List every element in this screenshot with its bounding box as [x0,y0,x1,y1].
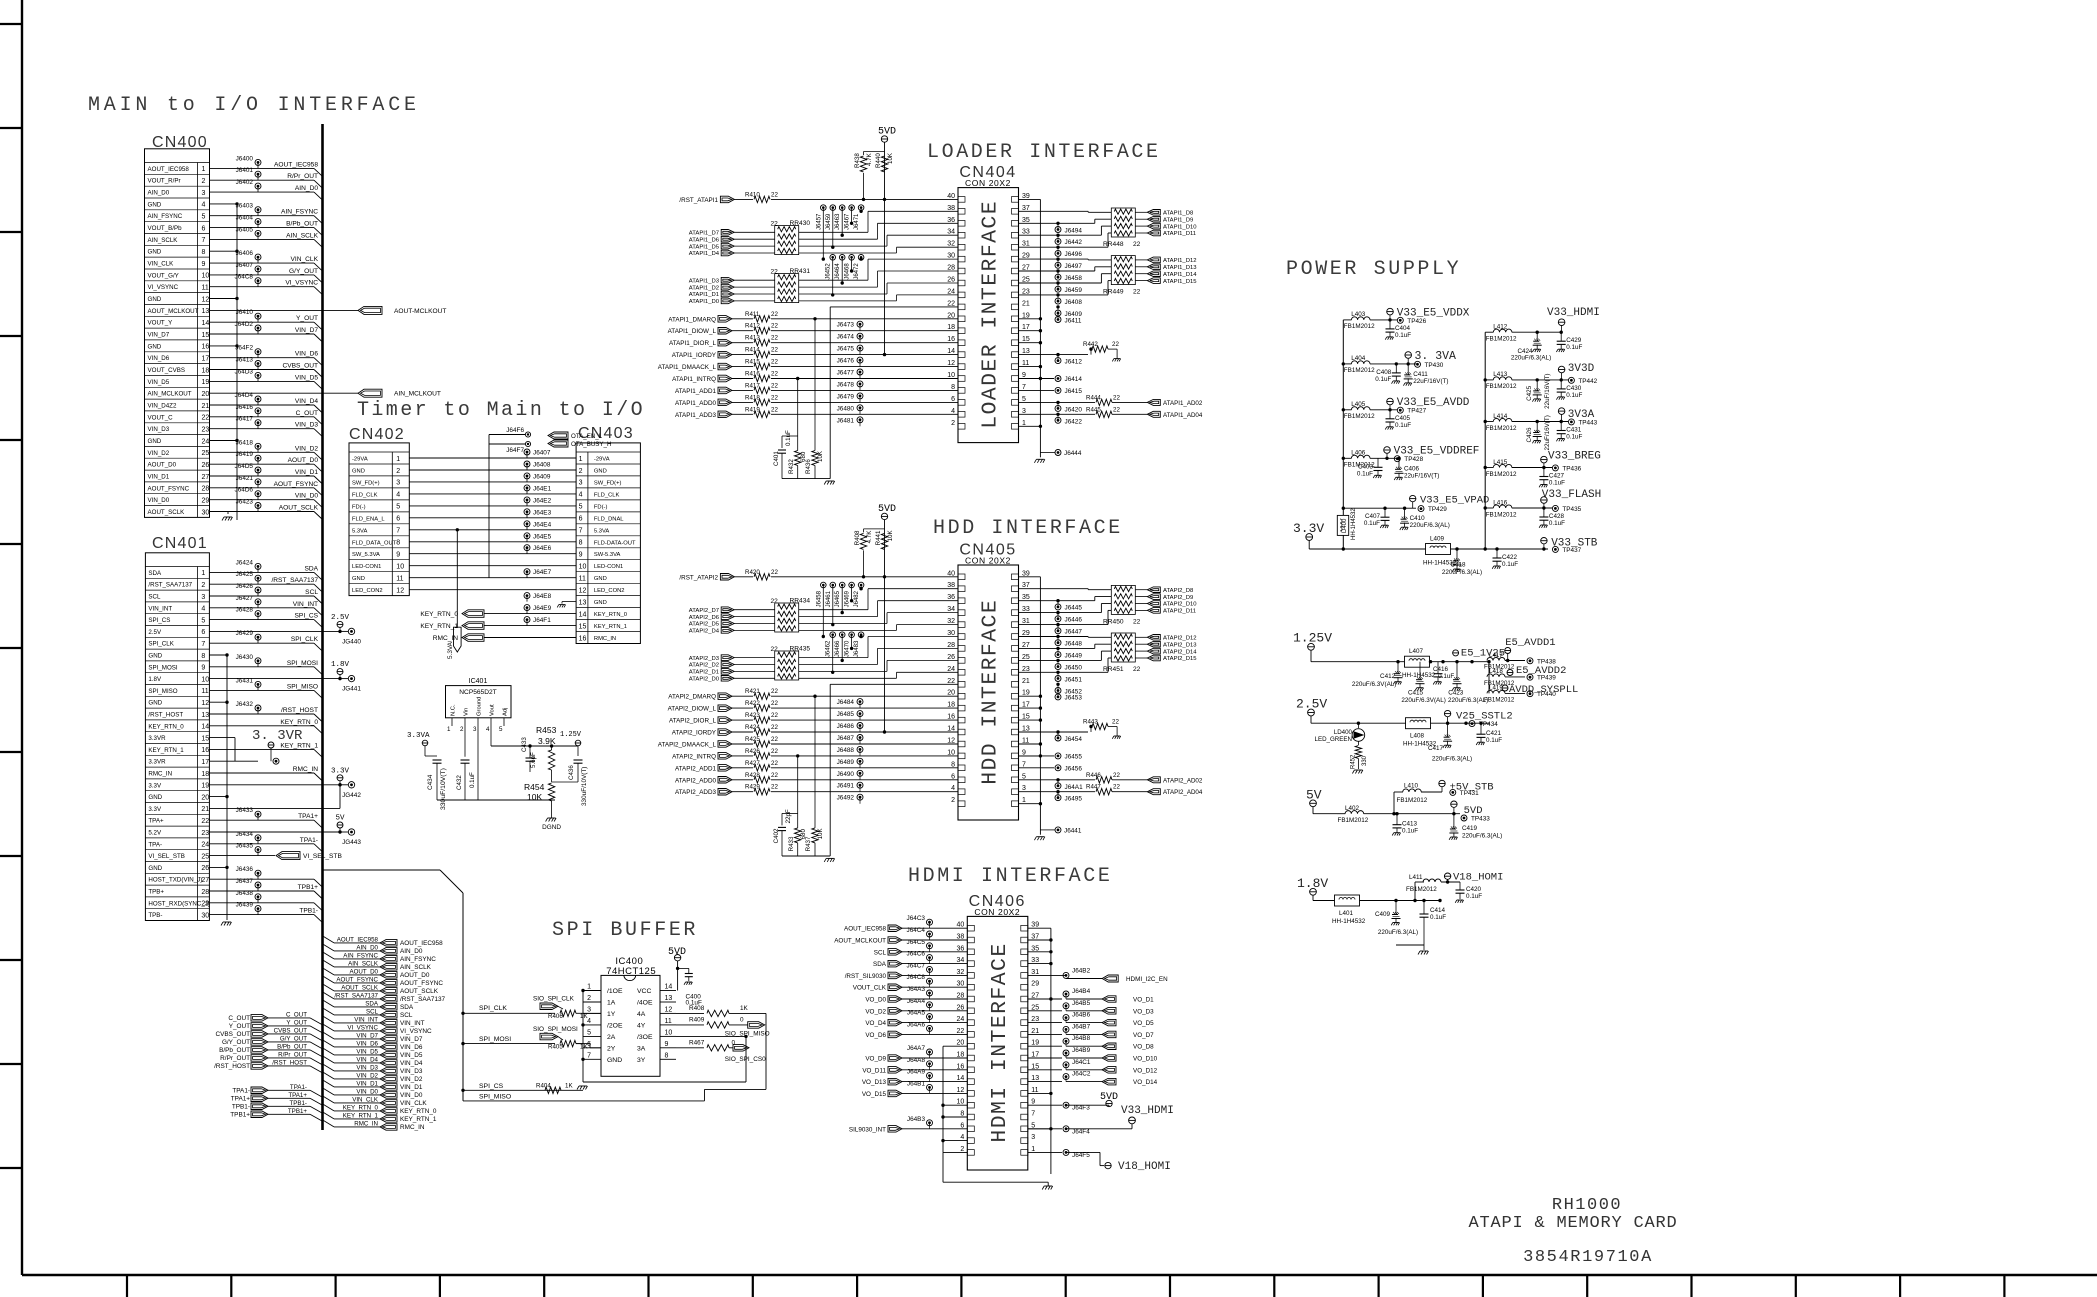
svg-text:GND: GND [352,576,365,582]
svg-text:22: 22 [771,736,778,743]
svg-text:14: 14 [201,724,209,731]
power V18_HOMI [1105,1162,1111,1168]
svg-text:VO_D7: VO_D7 [1133,1032,1154,1039]
svg-text:ATAPI2_D8: ATAPI2_D8 [1163,588,1194,594]
svg-text:HH-1H4532: HH-1H4532 [1332,918,1366,925]
svg-text:GND: GND [148,794,162,801]
wire VOUT_CLK to CN406 pin 30 [902,986,967,988]
svg-text:22: 22 [1133,618,1141,625]
svg-text:SPI BUFFER: SPI BUFFER [552,919,698,942]
ground [1114,735,1120,737]
inductor L404 FB1M2012 [1343,363,1351,365]
svg-text:C428: C428 [1549,513,1565,520]
svg-text:J64C7: J64C7 [907,962,926,969]
svg-text:22: 22 [771,772,778,779]
via J6404 [255,219,261,225]
svg-text:VIN_D1: VIN_D1 [295,469,318,476]
svg-text:R436: R436 [805,459,812,474]
wire CN401 pin 4 net VIN_INT [210,607,315,609]
svg-text:R467: R467 [689,1039,705,1046]
svg-text:16: 16 [202,344,210,351]
svg-text:J64E1: J64E1 [533,485,552,492]
node VO_D1 [1066,998,1102,1000]
svg-text:10: 10 [202,273,210,280]
svg-text:21: 21 [202,403,210,410]
resistor R412 22 [732,330,753,332]
svg-text:5: 5 [1022,773,1026,780]
wire CN400 ground chain [236,204,238,520]
svg-text:J6436: J6436 [236,866,254,873]
svg-text:3: 3 [587,1006,591,1013]
vias [821,205,827,211]
svg-text:5VD: 5VD [878,504,896,515]
wire /RST_ATAPI1 to pin 40 [771,198,958,200]
svg-text:C401: C401 [773,451,780,466]
svg-text:R427: R427 [745,760,760,767]
resistor R424 22 [732,731,753,733]
svg-text:21: 21 [201,806,209,813]
svg-text:7: 7 [201,641,205,648]
via J64D2 [255,325,261,331]
node ATAPI1_D10 [1147,223,1160,229]
svg-text:22: 22 [771,748,778,755]
svg-text:TPA-: TPA- [148,841,162,848]
svg-text:220uF/6.3V(AL): 220uF/6.3V(AL) [1352,681,1396,688]
via J6480 [857,405,863,411]
svg-text:22: 22 [771,406,778,413]
svg-text:J64C1: J64C1 [1072,1059,1091,1066]
wire VO_D13 to CN406 pin 14 [902,1081,967,1083]
svg-text:27: 27 [1031,993,1039,1000]
svg-text:22: 22 [947,678,955,685]
via J64D6 [255,491,261,497]
svg-text:AIN_D0: AIN_D0 [148,190,170,197]
svg-text:SCL: SCL [305,589,318,596]
node /RST_SAA7137 mid [323,992,335,999]
svg-text:AOUT_FSYNC: AOUT_FSYNC [336,976,378,983]
svg-text:J64E8: J64E8 [533,593,552,600]
svg-text:0: 0 [732,1039,736,1046]
svg-text:ATAPI2_AD04: ATAPI2_AD04 [1163,789,1203,796]
wire CN400 pin 3 net AIN_D0 [210,191,315,193]
resistor R409 0 [676,1024,704,1026]
inductor L408 HH-1H4532 [1406,718,1431,729]
svg-text:6: 6 [587,1041,591,1048]
via J6486 [857,723,863,729]
svg-text:KEY_RTN_0: KEY_RTN_0 [420,611,458,618]
wire CN400 pin 18 net CVBS_OUT [210,369,315,371]
wire [799,629,897,631]
svg-text:29: 29 [1031,981,1039,988]
svg-text:FB1M2012: FB1M2012 [1486,471,1517,478]
wire [799,293,887,295]
svg-text:220uF/6.3(AL): 220uF/6.3(AL) [1410,522,1450,529]
svg-text:2: 2 [579,468,583,475]
svg-text:J6419: J6419 [236,451,254,458]
svg-text:J64A9: J64A9 [907,1069,926,1076]
resistor R445 22 [1054,413,1095,415]
svg-text:J6453: J6453 [1065,695,1083,702]
ground DGND [548,817,556,819]
via J6450 [1055,664,1061,670]
svg-text:J64C8: J64C8 [907,974,926,981]
via J64E9 [524,605,530,611]
svg-text:J6483: J6483 [854,640,860,657]
svg-text:22: 22 [771,323,778,330]
svg-text:C421: C421 [1486,730,1502,737]
wire [799,664,878,666]
svg-text:8: 8 [665,1052,669,1059]
svg-text:R446: R446 [1086,772,1101,779]
via J6442 [1055,238,1061,244]
via J6478 [857,381,863,387]
svg-text:/RST_SIL9030: /RST_SIL9030 [845,973,887,980]
svg-text:0.1uF: 0.1uF [1438,673,1454,680]
net V18_HOMI [1444,873,1450,879]
resistor R429 22 [732,791,753,793]
svg-text:J64E6: J64E6 [533,545,552,552]
resistor R408 1K [660,1012,700,1014]
svg-text:J64A1: J64A1 [1065,784,1084,791]
svg-text:HOST_TXD(VIN_J): HOST_TXD(VIN_J) [148,877,202,884]
svg-text:KEY_RTN_0: KEY_RTN_0 [594,612,627,618]
via J64B7 [1028,1033,1062,1035]
wire [771,318,958,320]
svg-text:J6447: J6447 [1065,629,1083,636]
inductor L406 FB1M2012 [1343,457,1351,459]
svg-text:B/Pb_OUT: B/Pb_OUT [219,1047,250,1054]
resistor R446 22 [1054,779,1095,781]
svg-text:5: 5 [202,214,206,221]
svg-text:220uF/6.3(AL): 220uF/6.3(AL) [1462,833,1502,840]
svg-text:J64B7: J64B7 [1072,1023,1091,1030]
svg-text:KEY_RTN_0: KEY_RTN_0 [400,1108,437,1115]
capacitor C422 0.1uF [1496,549,1498,558]
svg-text:TP426: TP426 [1407,318,1426,325]
svg-text:VIN_D6: VIN_D6 [356,1040,378,1047]
via J64A6 [927,1025,933,1031]
via J6408 [524,461,530,467]
capacitor C428 0.1uF [1543,508,1545,517]
svg-text:J6422: J6422 [1065,418,1083,425]
svg-text:26: 26 [957,1004,965,1011]
svg-text:0.1uF: 0.1uF [785,430,792,446]
svg-text:15: 15 [1031,1063,1039,1070]
svg-text:2: 2 [202,178,206,185]
svg-text:0.1uF: 0.1uF [1502,561,1518,568]
svg-text:R412: R412 [745,323,760,330]
svg-text:J6475: J6475 [837,346,855,353]
via J6491 [857,782,863,788]
svg-text:SW_5.3VA: SW_5.3VA [352,552,380,558]
svg-text:0.1uF: 0.1uF [1430,914,1446,921]
wire pullup to IORDY [884,199,886,354]
svg-text:ATAPI1_D9: ATAPI1_D9 [1163,217,1193,223]
svg-text:C430: C430 [1566,385,1582,392]
testpoint TP435 [1552,505,1558,511]
svg-text:SCL: SCL [874,949,887,956]
wire CN402-CN403 row 8 [409,541,576,543]
svg-text:G/Y_OUT: G/Y_OUT [280,1035,307,1042]
resistor network RR450 22 [1111,585,1135,614]
via J6425 [255,575,261,581]
wire CN401 pin 9 net SPI_MOSI [210,666,315,668]
svg-text:AOUT_FSYNC: AOUT_FSYNC [148,485,190,492]
via J6445 [1055,604,1061,610]
resistor R413 22 [732,342,753,344]
via J6436 [255,870,261,876]
svg-text:TPA1+: TPA1+ [288,1092,307,1099]
svg-text:20: 20 [201,794,209,801]
svg-text:24: 24 [201,842,209,849]
svg-text:0.1uF: 0.1uF [1395,422,1411,429]
via JG442 [348,782,354,788]
wire CN400 pin 6 net B/Pb_OUT [210,227,315,229]
svg-text:TP439: TP439 [1537,675,1556,682]
svg-text:L419: L419 [1489,685,1503,692]
svg-text:VIN_D2: VIN_D2 [148,450,170,457]
svg-text:AOUT_D0: AOUT_D0 [288,457,319,464]
svg-text:/RST_HOST: /RST_HOST [272,1059,307,1066]
via J64B9 [1028,1057,1062,1059]
svg-text:VOUT_CVBS: VOUT_CVBS [148,367,185,374]
svg-text:20: 20 [947,312,955,319]
net 5VD [1451,801,1457,807]
svg-text:VO_D8: VO_D8 [1133,1044,1154,1051]
svg-text:V18_HOMI: V18_HOMI [1118,1161,1171,1173]
svg-text:33: 33 [1022,606,1030,613]
svg-text:5.3VA: 5.3VA [352,528,367,534]
testpoint TP439 [1527,674,1533,680]
via J64A7 [927,1049,933,1055]
resistor R414 22 [732,354,753,356]
wire SIL9030_INT to CN406 pin 6 [902,1128,967,1130]
ground CN406 [1047,1182,1049,1186]
via J6452 [1055,688,1061,694]
svg-text:ATAPI & MEMORY CARD: ATAPI & MEMORY CARD [1468,1214,1677,1233]
svg-text:VO_D12: VO_D12 [1133,1067,1158,1074]
node ATAPI2_D13 [1147,641,1160,647]
svg-text:J64E9: J64E9 [533,605,552,612]
svg-text:VIN_D1: VIN_D1 [400,1084,423,1091]
node SCL mid [323,1008,335,1015]
svg-text:8: 8 [951,384,955,391]
svg-text:6: 6 [396,516,400,523]
svg-text:31: 31 [1022,618,1030,625]
wire [1018,258,1088,260]
svg-text:0.1uF: 0.1uF [1466,893,1482,900]
svg-text:6: 6 [951,773,955,780]
inductor L413 FB1M2012 [1485,379,1493,381]
via J6429 [255,634,261,640]
svg-text:FD(-): FD(-) [352,504,366,510]
svg-text:11: 11 [665,1018,672,1025]
via J6496 [1055,250,1061,256]
svg-text:7: 7 [1022,384,1026,391]
via J6422 [1018,413,1054,415]
svg-text:5: 5 [396,504,400,511]
via J6424 [255,563,261,569]
svg-text:10: 10 [396,564,404,571]
wire CN406 left collector [942,1046,944,1152]
svg-text:6: 6 [960,1122,964,1129]
via J64C3 [927,919,933,925]
svg-text:J6423: J6423 [236,499,254,506]
node KEY_RTN_0 [462,610,484,618]
resistor R422 22 [732,707,753,709]
via J6401 [255,171,261,177]
svg-text:ATAPI2_D2: ATAPI2_D2 [689,663,719,669]
wire CN401 pin 6 to 2.5V [210,630,341,632]
svg-text:LED_GREEN: LED_GREEN [1315,736,1352,743]
svg-text:1Y: 1Y [607,1011,616,1018]
svg-text:22uF/16V(T): 22uF/16V(T) [1544,415,1551,450]
svg-text:12: 12 [665,1006,673,1013]
svg-text:C426: C426 [1526,427,1533,443]
wire CN401 pin 3 net SCL [210,595,315,597]
via J64E7 [524,569,530,575]
node AIN_SCLK mid [323,960,335,967]
svg-text:KEY_RTN_1: KEY_RTN_1 [400,1116,437,1123]
svg-text:18: 18 [947,324,955,331]
via J6449 [1055,652,1061,658]
svg-text:12: 12 [947,738,955,745]
svg-text:32: 32 [947,241,955,248]
capacitor C406 22uF/16V(T) [1398,458,1400,469]
svg-text:HDD INTERFACE: HDD INTERFACE [933,517,1123,540]
wire CN401 pin 22 net TPA1+ [210,819,315,821]
resistor R432 680 [795,451,801,466]
wire CN400 pin 23 net VIN_D3 [210,428,315,430]
wire 3.3V bottom rail [1343,548,1426,550]
wire VO_D2 to CN406 pin 26 [902,1010,967,1012]
svg-text:220uF/6.3(AL): 220uF/6.3(AL) [1442,569,1482,576]
svg-text:AIN_FSYNC: AIN_FSYNC [343,952,378,959]
wire [1018,234,1101,236]
svg-text:FLD_ENA_L: FLD_ENA_L [352,516,385,522]
svg-text:D400: D400 [1342,518,1348,533]
capacitor C427 0.1uF [1543,468,1545,477]
svg-text:R413: R413 [745,335,760,342]
svg-text:J6401: J6401 [236,167,254,174]
wire CN401 pin 30 net TPB1- [210,914,315,916]
svg-text:VIN_D1: VIN_D1 [148,474,170,481]
svg-text:J6473: J6473 [837,322,855,329]
svg-text:/3OE: /3OE [637,1034,653,1041]
svg-text:ATAPI2_D4: ATAPI2_D4 [689,629,720,635]
svg-text:19: 19 [1031,1040,1039,1047]
svg-text:J6418: J6418 [236,439,254,446]
svg-text:22: 22 [771,191,778,198]
svg-text:J6444: J6444 [1064,450,1082,457]
wire [799,623,887,625]
svg-text:35: 35 [1022,594,1030,601]
svg-text:C432: C432 [456,775,463,790]
svg-text:VIN_D4: VIN_D4 [356,1056,378,1063]
via J6409 [1055,310,1061,316]
svg-text:ATAPI1_D10: ATAPI1_D10 [1163,224,1197,230]
net V33_E5_VPAD [1342,507,1345,510]
svg-text:22: 22 [1113,772,1120,779]
wire [799,616,878,618]
node ATAPI1_AD02 [1112,401,1147,403]
svg-text:VIN_D1: VIN_D1 [356,1080,378,1087]
svg-text:J6484: J6484 [837,699,855,706]
svg-text:AOUT_D0: AOUT_D0 [148,462,177,469]
svg-text:AIN_FSYNC: AIN_FSYNC [400,956,436,963]
via J6489 [857,758,863,764]
node OTA_BUSY_H [548,440,568,447]
svg-text:R/Pr_OUT: R/Pr_OUT [287,173,318,180]
svg-text:GND: GND [594,576,607,582]
wire [771,389,958,391]
svg-text:SIO_SPI_MOSI: SIO_SPI_MOSI [533,1026,578,1033]
svg-text:ATAPI1_INTRQ: ATAPI1_INTRQ [672,376,716,383]
wire [1018,636,1088,638]
svg-text:C427: C427 [1549,473,1565,480]
wire CN402-CN403 row 6 [409,517,576,519]
svg-text:VO_D1: VO_D1 [1133,997,1154,1004]
svg-text:13: 13 [579,599,587,606]
svg-text:4: 4 [951,408,955,415]
via J6414 [1018,378,1054,380]
svg-text:24: 24 [957,1016,965,1023]
svg-text:VIN_INT: VIN_INT [148,605,172,612]
svg-text:J64C4: J64C4 [907,927,926,934]
svg-text:26: 26 [947,277,955,284]
svg-text:AOUT-MCLKOUT: AOUT-MCLKOUT [394,308,446,315]
svg-text:15: 15 [202,332,210,339]
resistor R415 22 [732,366,753,368]
svg-text:ATAPI2_ADD1: ATAPI2_ADD1 [675,765,717,772]
svg-text:J64B6: J64B6 [1072,1012,1091,1019]
svg-text:1: 1 [1022,797,1026,804]
svg-text:19: 19 [201,783,209,790]
svg-text:R410: R410 [745,191,760,198]
svg-text:22uF/16V(T): 22uF/16V(T) [1544,374,1551,409]
via J64A4 [927,1002,933,1008]
svg-text:B/Pb_OUT: B/Pb_OUT [286,221,318,228]
ground [1114,358,1120,360]
wire [1018,282,1101,284]
svg-text:B/Pb_OUT: B/Pb_OUT [277,1043,307,1050]
svg-text:28: 28 [957,993,965,1000]
svg-text:VO_D15: VO_D15 [862,1091,887,1098]
svg-text:/2OE: /2OE [607,1022,623,1029]
node VIN_D5 mid [323,1048,335,1055]
svg-text:28: 28 [202,486,210,493]
svg-text:J6406: J6406 [236,250,254,257]
wire CN400 pin 20 net AIN_MCLKOUT [210,392,359,394]
svg-text:14: 14 [665,984,673,991]
via J64F2 [255,349,261,355]
vias [821,582,827,588]
wire to V18_HOMI [1065,1152,1067,1165]
svg-text:TPB1+: TPB1+ [230,1112,250,1119]
capacitor C411 22uF/16V(T) [1407,364,1409,375]
svg-text:6: 6 [201,629,205,636]
svg-text:J64E5: J64E5 [533,533,552,540]
svg-text:SPI_CS: SPI_CS [148,617,170,624]
capacitor C425 22uF/16V(T) [1536,380,1538,391]
svg-text:10: 10 [665,1029,673,1036]
wire CN400 pin 7 net AIN_SCLK [210,238,315,240]
svg-text:R423: R423 [745,712,760,719]
svg-text:FB1M2012: FB1M2012 [1484,696,1515,703]
wire CN402-CN403 row 1 [409,457,576,459]
wire CN401 pin 7 net SPI_CLK [210,642,315,644]
svg-text:R/Pr_OUT: R/Pr_OUT [220,1055,250,1062]
